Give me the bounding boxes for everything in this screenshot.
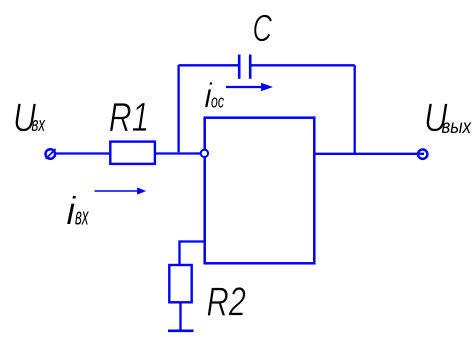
node A junction <box>201 150 208 157</box>
wire top left to capacitor <box>179 64 239 66</box>
svg-text:R2: R2 <box>207 279 247 325</box>
svg-text:ос: ос <box>211 92 224 112</box>
arrow current i_oc <box>226 83 272 90</box>
svg-text:вх: вх <box>75 204 89 231</box>
wire R1 to node <box>155 152 204 154</box>
ground <box>168 329 194 332</box>
wire box to R2 <box>180 242 206 266</box>
resistor R2 <box>169 265 191 302</box>
svg-text:вых: вых <box>442 117 472 138</box>
wire R2 to ground <box>179 302 181 330</box>
svg-text:вх: вх <box>32 114 46 136</box>
input terminal <box>46 149 56 159</box>
wire feedback left vertical <box>177 65 179 152</box>
capacitor C plates <box>239 55 250 79</box>
op-amp block U1 <box>205 118 315 264</box>
label U_vyx <box>424 96 472 140</box>
label i_vx <box>66 190 89 234</box>
arrow current i_vx <box>95 188 146 194</box>
svg-text:C: C <box>253 8 273 50</box>
label i_oc <box>204 76 224 115</box>
svg-text:R1: R1 <box>109 94 150 140</box>
wire capacitor to right corner <box>250 64 355 66</box>
resistor R1 <box>110 142 155 164</box>
wire feedback right vertical <box>354 65 356 153</box>
wire input to R1 <box>56 152 111 154</box>
output terminal <box>418 150 427 159</box>
wire output <box>314 153 424 155</box>
label U_vx <box>13 96 46 140</box>
